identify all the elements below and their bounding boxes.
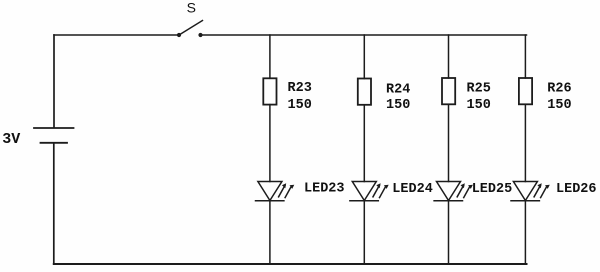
wire left vertical (top, battery +) — [53, 35, 55, 127]
wire branch1 middle — [269, 105, 271, 182]
wire branch4 middle — [524, 104, 526, 181]
svg-text:LED26: LED26 — [556, 182, 597, 197]
svg-text:R24: R24 — [386, 83, 410, 98]
wire top-right segment — [201, 34, 527, 36]
wire branch4 top — [524, 35, 526, 78]
battery 3V — [34, 128, 74, 143]
LED23 diode — [256, 182, 295, 201]
svg-text:R23: R23 — [288, 81, 312, 96]
svg-text:3V: 3V — [2, 131, 20, 148]
wire branch1 bottom — [269, 201, 271, 264]
LED26 diode — [511, 182, 550, 201]
label R24 150 — [386, 83, 410, 113]
label R25 150 — [467, 81, 491, 112]
LED24 diode — [350, 182, 389, 201]
switch S — [177, 0, 203, 37]
svg-text:R25: R25 — [467, 81, 491, 96]
resistor R24 — [358, 79, 371, 105]
resistor R23 — [263, 78, 276, 104]
wire branch2 bottom — [363, 201, 365, 264]
wire left vertical (bottom, battery -) — [53, 143, 55, 264]
svg-text:LED24: LED24 — [392, 182, 433, 197]
label R23 150 — [288, 81, 312, 113]
bottom bus wire — [54, 263, 527, 265]
wire branch3 middle — [448, 104, 450, 181]
svg-text:150: 150 — [467, 98, 491, 113]
wire branch2 top — [363, 35, 365, 79]
svg-text:LED23: LED23 — [304, 181, 345, 196]
wire top-left segment — [54, 34, 177, 36]
wire branch3 bottom — [448, 201, 450, 264]
svg-text:150: 150 — [386, 98, 410, 113]
wire branch1 top — [269, 35, 271, 78]
svg-text:R26: R26 — [547, 82, 571, 97]
svg-text:150: 150 — [547, 98, 571, 113]
wire branch3 top — [448, 35, 450, 78]
resistor R25 — [442, 78, 455, 104]
LED25 diode — [434, 182, 473, 201]
label R26 150 — [547, 82, 571, 113]
svg-text:150: 150 — [288, 98, 312, 113]
resistor R26 — [519, 78, 532, 104]
svg-text:LED25: LED25 — [472, 182, 513, 197]
svg-text:S: S — [187, 0, 196, 16]
wire branch4 bottom — [524, 201, 526, 264]
wire branch2 middle — [363, 105, 365, 182]
